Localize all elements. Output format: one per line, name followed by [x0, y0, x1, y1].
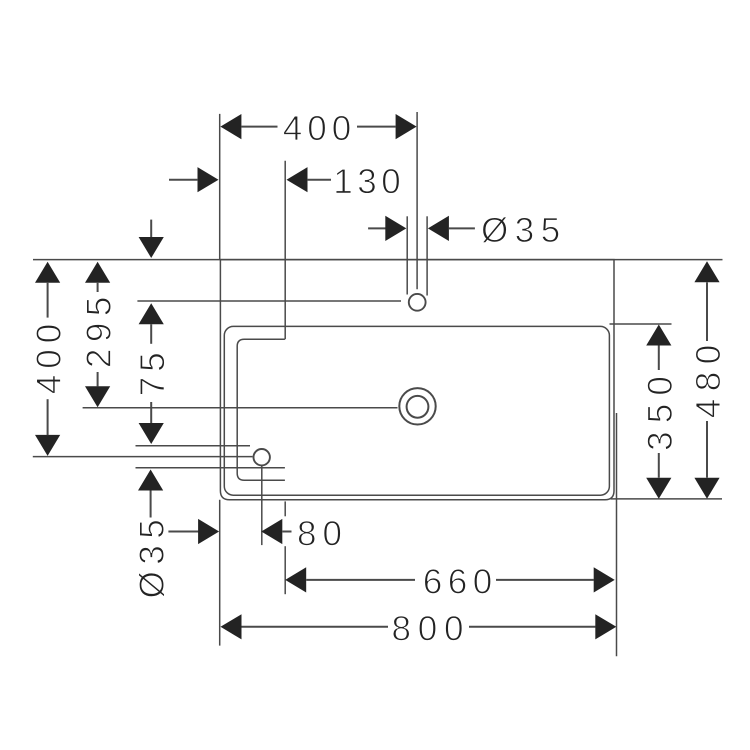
dimension 75 label: [140, 354, 164, 395]
dimension 80 shaft left: [168, 531, 198, 533]
dimension 130 arrow right: [287, 167, 308, 192]
dimension dia35 overflow arrow up: [138, 470, 163, 491]
dimension dia35 overflow shaft above: [150, 402, 152, 423]
dimension 400 left arrow bottom: [35, 435, 60, 456]
dimension 400 top shafts: [241, 126, 277, 128]
dimension 75 arrow down at top edge: [139, 237, 164, 258]
basin rim rounded outline: [224, 326, 609, 495]
dimension 130 label: [336, 169, 399, 194]
dimension dia35 faucet right shaft: [449, 227, 475, 229]
dimension 295 label: [86, 298, 111, 366]
dimension 480 label: [696, 346, 721, 417]
dimension dia35 faucet arrow right: [428, 216, 449, 241]
dimension 800 arrow left: [221, 614, 242, 639]
dimension 660 arrow left: [285, 567, 306, 592]
dimension 800 arrow right: [595, 614, 616, 639]
centerline faucet hole: [416, 112, 418, 289]
extension line shelf edge x285 lower segments: [284, 501, 286, 516]
leader line overflow center: [33, 456, 253, 458]
dimension 75 shaft below arrow: [150, 324, 152, 344]
extension line shelf edge x285 upper: [284, 161, 286, 340]
drain inner circle: [407, 396, 429, 418]
extension line faucet hole right edge: [426, 216, 428, 295]
dimension 350 arrow top: [646, 325, 671, 346]
dimension 80 arrow left-pointing: [261, 519, 282, 544]
leader line overflow bottom tangent: [136, 467, 285, 469]
dimension 660 shafts: [306, 579, 415, 581]
dimension 295 arrow bottom: [85, 386, 110, 407]
extension line overflow center vertical: [261, 466, 263, 545]
extension line left vertical below basin: [219, 500, 221, 646]
extension line rim top right: [610, 323, 672, 325]
faucet hole circle: [409, 294, 426, 311]
dimension 400 left shafts: [47, 283, 49, 318]
leader line drain center: [83, 407, 398, 409]
leader line faucet hole center: [137, 300, 401, 302]
dimension dia35 faucet arrow left: [385, 216, 406, 241]
dimension 295 shafts: [97, 283, 99, 292]
extension line right edge x616: [616, 413, 618, 656]
dimension 660 arrow right: [594, 567, 615, 592]
dimension 350 label: [647, 377, 672, 449]
dimension 400 left label: [36, 325, 61, 393]
dimension 130 arrow outside-left: [198, 167, 219, 192]
drain outer circle: [399, 388, 435, 424]
dimension 75 upper shaft: [150, 220, 152, 237]
dimension 350 shafts: [658, 346, 660, 371]
dimension 80 label: [299, 521, 341, 546]
dimension 80 arrow right-pointing: [198, 519, 219, 544]
dimension 480 arrow bottom: [694, 478, 719, 499]
shelf recess left outline: [237, 339, 285, 480]
extension line bottom edge right: [611, 498, 723, 500]
dimension 800 label: [393, 616, 462, 641]
leader line overflow top tangent: [136, 445, 251, 447]
extension line top edge horizontal: [33, 259, 723, 261]
dimension 400 top label: [284, 116, 350, 141]
washbasin ceramic outer outline: [220, 260, 614, 500]
dimension 350 arrow bottom: [646, 478, 671, 499]
dimension 400 top arrow right: [396, 114, 417, 139]
dimension 75 arrow up at faucet line: [139, 303, 164, 324]
dimension 480 shafts: [706, 282, 708, 341]
dimension 130 shaft to label: [307, 179, 331, 181]
dimension dia35 overflow label: [139, 521, 165, 597]
dimension 660 label: [425, 569, 491, 594]
dimension 480 arrow top: [694, 261, 719, 282]
dimension 80 shaft right: [282, 531, 291, 533]
dimension dia35 overflow shaft below: [150, 491, 152, 518]
dimension dia35 faucet left shaft: [368, 227, 386, 229]
dimension dia35 overflow arrow down: [139, 423, 164, 444]
dimension dia35 faucet label: [482, 217, 558, 243]
extension line faucet hole left edge: [406, 216, 408, 294]
dimension 400 top arrow left: [220, 114, 241, 139]
dimension 295 arrow top: [85, 262, 110, 283]
dimension 800 shafts: [242, 626, 389, 628]
extension line left vertical x220: [219, 114, 221, 260]
dimension 400 left arrow top: [35, 262, 60, 283]
overflow hole circle: [254, 449, 270, 465]
dimension 130 outside-left shaft: [169, 179, 198, 181]
